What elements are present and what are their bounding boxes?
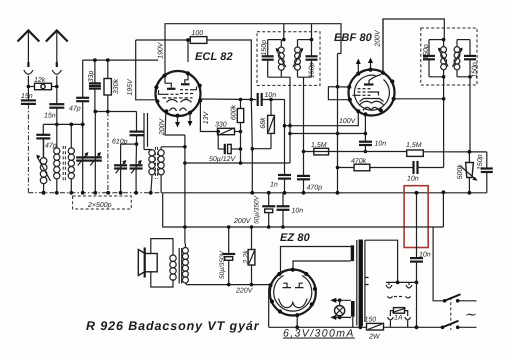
- node 200V rail right junction: [442, 190, 446, 194]
- wire screen dropper vertical: [251, 100, 252, 193]
- node secondary top junction: [69, 123, 73, 127]
- resistor 600k: [229, 100, 243, 132]
- node L1 ground: [42, 191, 46, 195]
- svg-text:2×500p: 2×500p: [87, 202, 112, 209]
- capacitor 150p (IF2 primary): [423, 40, 435, 77]
- node osc coil ground: [149, 191, 153, 195]
- svg-text:150p: 150p: [423, 44, 430, 60]
- wire 330 to 600k junction: [235, 131, 241, 133]
- SECTION: power supply: [253, 191, 416, 341]
- SECTION: EBF80 stage: [285, 19, 446, 195]
- svg-text:ECL 82: ECL 82: [195, 51, 233, 63]
- transformer T1 core: [63, 146, 65, 181]
- SECTION: detector / volume: [297, 142, 493, 258]
- capacitor 150p (tone): [477, 152, 493, 193]
- node screen dropper ground: [250, 191, 254, 195]
- resistor 68k: [259, 100, 275, 149]
- wire plate feed y=40: [136, 39, 191, 41]
- svg-text:200V: 200V: [374, 29, 381, 48]
- svg-text:R 926 Badacsony VT gyár: R 926 Badacsony VT gyár: [86, 319, 260, 333]
- wire IF2 primary bottom: [429, 77, 444, 168]
- potentiometer 500k: [456, 152, 478, 193]
- tube EBF80 grids: [353, 89, 379, 96]
- node IF1 secondary top: [310, 38, 314, 42]
- capacitor 47p (RF coupling): [69, 60, 89, 124]
- resistor 330k: [104, 60, 120, 193]
- tube EZ80 pins: [268, 268, 317, 318]
- tube ECL82 pins: [154, 71, 202, 117]
- capacitor 10n (cathode): [359, 141, 386, 152]
- svg-text:1A: 1A: [394, 315, 403, 322]
- capacitor 150p (IF1 secondary): [298, 40, 318, 78]
- tube EBF80 inner shield arc: [354, 75, 389, 110]
- capacitor 10n (plate coupling): [258, 92, 285, 106]
- transformer T2 oscillator coil left: [144, 113, 155, 193]
- wire 200V rail to bus: [442, 192, 444, 227]
- capacitor 10n (HT): [277, 193, 304, 227]
- fuse holder plug left: [388, 317, 394, 327]
- wire 190V drop: [136, 40, 157, 100]
- node IF1 secondary bottom: [302, 150, 306, 154]
- capacitor 50u/12V electrolytic: [209, 130, 242, 163]
- transformer PT core bar: [356, 240, 358, 326]
- transformer OT primary: [182, 244, 188, 285]
- arrow EBF80 plate lead up: [368, 58, 373, 69]
- node cathode wire junction: [183, 161, 187, 165]
- resistor 470k: [338, 157, 413, 171]
- tube ECL82 envelope: [156, 71, 201, 116]
- wire heater rail to switch: [417, 326, 443, 328]
- node cap2 top: [93, 110, 97, 114]
- wire 68k node down: [284, 100, 286, 175]
- svg-text:2W: 2W: [368, 334, 381, 341]
- wire padder to osc trimmer: [121, 143, 137, 145]
- tube EBF80 anode: [364, 83, 374, 85]
- node filter2 bottom: [227, 283, 231, 287]
- capacitor 610p padder: [112, 112, 144, 146]
- node AGC crossing 1: [336, 132, 340, 136]
- wire AGC vertical from rail: [338, 54, 342, 193]
- wire 100V line: [285, 112, 359, 126]
- node osc grid junction: [183, 145, 187, 149]
- node gang-b ground: [119, 191, 123, 195]
- pilot lamp LA1: [330, 298, 351, 320]
- wire PT primary top to selector: [365, 240, 398, 282]
- node selector feed: [396, 281, 400, 285]
- inductor IF2 secondary: [453, 40, 463, 77]
- svg-text:12k: 12k: [34, 76, 46, 84]
- wire AVC rail y=151.5: [304, 151, 487, 153]
- tube ECL82 pentode grids: [180, 87, 197, 94]
- wire pentode plate drop to output transformer: [184, 135, 186, 244]
- wire grid feedback vertical: [147, 113, 149, 147]
- svg-text:EZ 80: EZ 80: [280, 232, 311, 244]
- tube ECL82 pentode cathode: [181, 100, 192, 103]
- transformer OT secondary (speaker side): [170, 255, 176, 261]
- node cathode rail 600k: [239, 161, 243, 165]
- capacitor 15n (left antenna): [21, 87, 36, 104]
- resistor 12k: [28, 76, 56, 90]
- svg-text:50µ/350V: 50µ/350V: [253, 195, 260, 224]
- wire speaker bottom lead: [151, 272, 173, 287]
- variable capacitor C-gang-b: [114, 144, 127, 193]
- svg-text:200V: 200V: [233, 218, 252, 225]
- capacitor 150p (IF1 primary): [261, 40, 274, 78]
- svg-text:150p: 150p: [309, 62, 316, 78]
- antenna jack J1: [24, 70, 33, 87]
- node T1 secondary ground: [69, 191, 73, 195]
- node heater wire junction: [295, 325, 299, 329]
- svg-text:1,5M: 1,5M: [311, 142, 327, 149]
- SECTION: antenna front end: [18, 31, 159, 195]
- wire IF1 primary bottom: [268, 77, 290, 163]
- svg-text:470p: 470p: [307, 185, 323, 192]
- wire EZ80 heater bottom drop: [296, 316, 298, 328]
- tube ECL82 suppressor grid row: [163, 97, 193, 99]
- capacitor 33p: [88, 60, 101, 111]
- node 470p ground: [302, 191, 306, 195]
- node filter2 top: [227, 225, 231, 229]
- node padder junction: [135, 142, 139, 146]
- node antenna-left junction: [27, 85, 31, 89]
- node filter1 top: [267, 191, 271, 195]
- node 330k bottom: [106, 110, 110, 114]
- node pot bottom: [468, 191, 472, 195]
- tube ECL82 heater: [170, 108, 187, 111]
- wire cathode pin to 330: [200, 102, 217, 132]
- IF transformer can 1 (dashed shield): [257, 32, 320, 86]
- resistor 1.5M (diode load): [406, 142, 423, 156]
- wire IF1 secondary bottom: [298, 77, 312, 151]
- resistor 100: [190, 30, 207, 43]
- svg-text:200V: 200V: [159, 118, 166, 137]
- capacitor 10n (series AF coupling): [407, 161, 444, 183]
- antenna ANT2: [46, 31, 68, 68]
- variable capacitor trimmer-b: [130, 144, 143, 193]
- svg-text:2,2k: 2,2k: [242, 250, 250, 265]
- transformer T2 core: [155, 147, 157, 179]
- wire IF2 secondary bottom to detector: [457, 77, 470, 152]
- svg-text:1,5M: 1,5M: [406, 142, 422, 149]
- transformer T2 oscillator coil right: [158, 147, 185, 193]
- node HT cap bottom: [281, 225, 285, 229]
- svg-text:220V: 220V: [235, 288, 254, 295]
- svg-text:33p: 33p: [88, 71, 95, 83]
- svg-text:10n: 10n: [375, 141, 387, 148]
- gang mechanical link (dash-dot): [106, 191, 110, 195]
- tube ECL82 triode anode: [165, 78, 176, 89]
- capacitor 1n: [270, 175, 291, 193]
- variable capacitor trimmer-a: [89, 112, 102, 193]
- node screen dropper junction: [251, 147, 255, 151]
- resistor 150 2W: [365, 317, 417, 341]
- node red-box top: [415, 191, 419, 195]
- wire selector feed: [386, 281, 417, 283]
- speaker LS1 cone: [138, 250, 145, 276]
- node 68k top: [269, 98, 273, 102]
- svg-text:6,3V/300mA: 6,3V/300mA: [283, 328, 355, 340]
- node trimmer-b ground: [134, 191, 138, 195]
- wire EBF80 diode to IF2: [394, 98, 444, 100]
- wire grid node y=111.5: [95, 111, 137, 113]
- tube EBF80 anode lead: [369, 75, 381, 85]
- resistor 1.5M (AVC): [311, 142, 329, 155]
- arrow AVC lead (tube bottom left): [175, 117, 180, 128]
- node cathode crossing: [364, 132, 368, 136]
- switch S1 pole A: [443, 294, 477, 302]
- IF transformer can 2 (dashed shield): [421, 28, 477, 85]
- wire speaker top lead: [151, 239, 173, 255]
- wire top rail B+: [165, 24, 341, 76]
- antenna ANT1: [18, 31, 40, 68]
- wire 200V rail: [163, 193, 444, 227]
- switch S1 pole B: [441, 321, 477, 329]
- capacitor 15n (right antenna): [44, 87, 64, 125]
- svg-text:1n: 1n: [270, 182, 278, 189]
- antenna jack J2: [52, 70, 61, 87]
- svg-text:500k: 500k: [456, 164, 464, 180]
- svg-text:15n: 15n: [44, 113, 56, 120]
- wire grid bus y=60: [83, 59, 159, 61]
- fuse 1A: [390, 308, 407, 322]
- svg-text:68k: 68k: [259, 117, 267, 129]
- node 1n ground: [283, 191, 287, 195]
- node OT primary top: [183, 225, 187, 229]
- transformer T1 antenna coil primary: [54, 124, 60, 192]
- SECTION: mains: [386, 227, 477, 330]
- node 33p top: [93, 58, 97, 62]
- wire EZ80 heater left drop: [269, 286, 271, 328]
- wire EBF80 cathode down: [364, 115, 366, 141]
- svg-text:10n: 10n: [407, 176, 419, 183]
- wire EZ80 cathode to 220V rail: [270, 284, 273, 287]
- node screen feed: [250, 98, 254, 102]
- capacitor 50u/350V electrolytic (filter 2): [219, 227, 235, 285]
- svg-text:330: 330: [215, 122, 227, 129]
- wire mains live drop: [433, 227, 445, 301]
- svg-text:150p: 150p: [472, 62, 479, 78]
- svg-text:13V: 13V: [203, 110, 210, 124]
- inductor L1 adjustable antenna coil: [36, 138, 50, 192]
- wire 6.3V heater rail: [269, 326, 367, 328]
- tube EBF80 envelope: [349, 70, 395, 116]
- wire y=124.4: [43, 123, 82, 125]
- wire EBF80 plate top rail: [383, 19, 444, 73]
- node pot top: [468, 150, 472, 154]
- SECTION: tuner coils and gang: [28, 112, 486, 210]
- node filter1 bottom: [267, 225, 271, 229]
- transformer PT primary taps: [365, 278, 369, 285]
- transformer PT winding HV (top, solid): [351, 245, 354, 261]
- svg-text:50µ/12V: 50µ/12V: [209, 155, 237, 163]
- capacitor 47p (series with trimmer coil): [36, 124, 56, 157]
- wire 68k bottom to screen dropper: [252, 148, 271, 150]
- svg-text:10n: 10n: [292, 208, 304, 215]
- node T1 primary ground: [55, 191, 59, 195]
- node 2.2k bottom: [250, 283, 254, 287]
- svg-text:47p: 47p: [69, 106, 81, 113]
- tube EBF80 diode plates: [360, 99, 384, 102]
- wire IF1 secondary top up: [311, 24, 313, 40]
- wire resistor 100 to screen drop: [207, 40, 251, 100]
- voltage selector plug right: [406, 282, 412, 288]
- SECTION: IF cans: [257, 19, 479, 168]
- svg-text:330k: 330k: [112, 78, 120, 94]
- svg-text:100: 100: [192, 30, 204, 37]
- node 330/600k junction: [239, 130, 243, 134]
- node 600k top: [239, 98, 243, 102]
- SECTION: ECL82 stage: [136, 24, 341, 244]
- node AGC crossing 2: [336, 166, 340, 170]
- wire cathode bias rail y=163: [185, 162, 290, 164]
- wire EZ80 plate feed: [281, 247, 351, 273]
- tube EBF80 pins: [347, 68, 396, 117]
- svg-text:10n: 10n: [419, 252, 431, 259]
- wire junction down to cathode rail: [240, 132, 242, 164]
- transformer PT primary winding line: [364, 240, 366, 322]
- transformer T1 secondary: [68, 124, 74, 192]
- svg-text:EBF 80: EBF 80: [334, 32, 373, 44]
- node IF1 primary top: [282, 38, 286, 42]
- inductor IF1 primary: [268, 40, 286, 78]
- tube EBF80 heater: [363, 107, 379, 110]
- node mains filter mid: [415, 281, 419, 285]
- capacitor 150p (IF2 secondary): [457, 40, 479, 78]
- tube EZ80 anode right: [295, 283, 304, 287]
- svg-text:195V: 195V: [127, 78, 134, 96]
- voltage selector link bar: [388, 296, 411, 298]
- svg-text:470k: 470k: [351, 157, 367, 165]
- transformer OT core: [179, 248, 182, 284]
- capacitor 50u/350V electrolytic (filter 1): [253, 193, 275, 227]
- tube EZ80 cathode-heater: [279, 299, 308, 308]
- wire chassis drop from left 15n: [27, 104, 29, 193]
- wire PT core bottom stub: [359, 326, 361, 328]
- node mains filter bottom: [415, 325, 419, 329]
- node grid loop junction: [336, 85, 340, 89]
- voltage selector plug left: [386, 282, 392, 288]
- node IF2 return junction: [442, 97, 446, 101]
- svg-text:∼: ∼: [464, 306, 476, 322]
- switch S1 mechanical link: [450, 297, 452, 330]
- wire IF1 primary top feed: [283, 24, 285, 40]
- resistor 2.2k: [242, 227, 255, 285]
- wire pentode plate to rail: [187, 40, 189, 62]
- wire red-box vertical (ground to mains filter): [416, 193, 418, 258]
- transformer PT winding heater (bottom, solid): [351, 301, 355, 317]
- svg-text:15n: 15n: [21, 93, 33, 100]
- node antenna-right junction: [55, 85, 59, 89]
- inductor IF1 secondary: [293, 40, 303, 78]
- arrow grid lead (tube bottom right): [188, 114, 193, 127]
- node IF2 primary top: [442, 38, 446, 42]
- tube ECL82 triode cathode: [167, 100, 178, 103]
- wire pentode screen y=99.5: [200, 98, 256, 101]
- ground bus (chassis, dash-dot part): [28, 192, 162, 194]
- capacitor 10n (mains filter): [410, 252, 431, 328]
- svg-text:150p: 150p: [477, 154, 484, 170]
- wire IF1 sec bottom rail y=133.5: [290, 133, 365, 135]
- svg-text:190V: 190V: [157, 41, 164, 59]
- node grid-coil junction: [55, 123, 59, 127]
- SECTION: output / speaker: [138, 190, 445, 294]
- wire triode cathode to oscillator: [165, 112, 185, 135]
- resistor 330: [215, 122, 235, 136]
- node 10n to AVC rail: [364, 150, 368, 154]
- tube ECL82 pentode anode: [181, 75, 190, 85]
- wire screen grid 200V drop: [382, 19, 384, 73]
- tube EZ80 envelope: [270, 270, 316, 316]
- svg-text:600k: 600k: [229, 104, 237, 120]
- variable capacitor C-gang-a: [76, 124, 89, 192]
- svg-text:100V: 100V: [339, 118, 357, 125]
- wire 220V rail: [186, 284, 271, 286]
- node PT bottom to heater rail: [359, 325, 363, 329]
- inductor IF2 primary: [429, 40, 448, 77]
- arrow EBF80 screen lead up: [356, 59, 361, 73]
- node 2.2k top: [250, 225, 254, 229]
- ground bus (solid part): [163, 192, 487, 194]
- red annotation rectangle: [404, 186, 428, 248]
- dashed box tuning gang 2x500p: [73, 196, 132, 209]
- speaker LS1 driver: [145, 248, 158, 278]
- tube ECL82 triode grid: [159, 90, 179, 94]
- tube EZ80 anode left: [283, 283, 292, 287]
- tube EZ80 inner shield arc: [274, 276, 312, 312]
- capacitor 470p: [297, 152, 322, 193]
- node trimmer-a ground: [93, 191, 97, 195]
- node 330k top: [106, 58, 110, 62]
- fuse holder plug right: [405, 317, 411, 327]
- tube EBF80 cathode: [359, 101, 384, 105]
- svg-text:150: 150: [365, 317, 377, 324]
- wire grid return small loop: [328, 87, 349, 100]
- svg-text:150p: 150p: [261, 40, 268, 56]
- node 47p line junction: [81, 123, 85, 127]
- SECTION: texts: [86, 32, 373, 333]
- node AVC takeoff: [283, 124, 287, 128]
- node gang-a ground: [81, 191, 85, 195]
- svg-text:50µ/350V: 50µ/350V: [219, 250, 226, 279]
